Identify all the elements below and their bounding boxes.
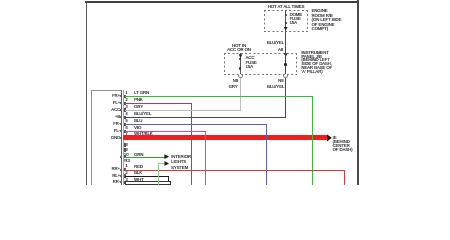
R4 pin 2 contact tick [124, 174, 126, 177]
wire BLK row R4-2 [125, 176, 170, 177]
arrow to interior lights system 1 [164, 154, 169, 159]
pin number 5 connector R3 [125, 119, 127, 123]
R4 pin 3 contact tick [124, 181, 126, 184]
label GRY [218, 85, 238, 89]
connector N8 semicircle [283, 75, 289, 78]
wire VIO vertical drop [205, 131, 206, 185]
wire VIO row 6 [125, 131, 207, 132]
label BLU/YEL [254, 85, 284, 89]
page border left [86, 1, 87, 185]
pin 1 contact tick [124, 95, 126, 98]
pin 2 edge mark [120, 102, 122, 104]
pin 3 edge mark [120, 109, 122, 111]
pin 10 edge mark [120, 156, 122, 158]
wire BLU vertical drop [266, 124, 267, 185]
connector face line [122, 90, 125, 186]
wire RED vertical drop [344, 170, 345, 185]
wire label VIO [134, 126, 141, 130]
component: radio box (partial, cropped at bottom) [91, 90, 92, 186]
connector N9 semicircle [238, 75, 244, 78]
arrow into J/B at A8 [284, 53, 288, 56]
radio pin function label RL+ [100, 174, 120, 178]
pin number 8 connector R3 [125, 143, 127, 147]
pin number 6 connector R3 [125, 126, 127, 130]
radio pin function label RR- [100, 180, 120, 184]
wire LT GRN vertical drop [312, 96, 313, 185]
wire WHT row R4-3 [125, 181, 171, 184]
wire label WHT [134, 178, 144, 182]
radio pin function label +B [100, 115, 120, 119]
wire label GRY [134, 105, 143, 109]
pin number 2 connector R4 [125, 171, 127, 175]
wire label BLU/YEL [134, 112, 151, 116]
label ENGINE ROOM R/B location [312, 9, 342, 31]
pin number 1 connector R3 [125, 91, 127, 95]
pin 5 edge mark [120, 123, 122, 125]
pin N8 label [263, 79, 283, 83]
pin 6 contact tick [124, 130, 126, 133]
R4 pin 3 edge mark [120, 181, 122, 183]
arrow into J/B for ACC feed [239, 54, 243, 57]
wire BLU/YEL from dome fuse down to I/P J/B [285, 32, 286, 53]
pin 9 contact tick [124, 148, 126, 151]
wire BLU/YEL vertical from J/B to radio row4 [285, 78, 286, 119]
arrow to interior lights system 2 [164, 161, 169, 166]
wire GRN branch from below [158, 163, 159, 185]
R4 pin 1 edge mark [120, 169, 122, 171]
fuse dome bottom dot [285, 22, 287, 24]
page border top [85, 1, 358, 3]
R4 pin 1 contact tick [124, 168, 126, 171]
wire label PNK [134, 98, 143, 102]
arrow out of dome fuse box [284, 27, 288, 30]
radio pin function label FR+ [100, 94, 120, 98]
label HOT AT ALL TIMES [260, 5, 312, 9]
pin number 1 connector R4 [125, 164, 127, 168]
wire label BLU [134, 119, 142, 123]
R4 pin 2 edge mark [120, 175, 122, 177]
wire RED row R4-1 [125, 170, 346, 171]
pin 1 edge mark [120, 95, 122, 97]
page border right [357, 0, 359, 185]
label ACC FUSE 15A [246, 56, 257, 70]
label DOME FUSE 15A [290, 13, 303, 26]
wire LT GRN row 1 [125, 96, 314, 97]
radio pin function label ACC [100, 108, 120, 112]
pin 8 contact tick [124, 143, 126, 146]
radio pin function label FL- [100, 129, 120, 133]
radio pin function label FR- [100, 122, 120, 126]
fuse DOME 15A leg wire [285, 10, 286, 32]
highlighted GND wire thick red bar [123, 135, 328, 140]
pin number 3 connector R4 [125, 178, 127, 182]
wire PNK row 2 [125, 103, 193, 104]
label INSTRUMENT PANEL J/B location [301, 51, 332, 74]
fuse dome top dot [285, 14, 287, 16]
fuse acc bottom dot [239, 67, 241, 69]
label INTERIOR LIGHTS SYSTEM [171, 154, 191, 171]
radio pin function label FL+ [100, 101, 120, 105]
pin number 7 connector R3 [125, 132, 127, 136]
wire BLU/YEL row 4 [125, 117, 287, 118]
pin N9 label [218, 79, 238, 83]
wire label GRN [134, 153, 143, 157]
pin 4 edge mark [120, 116, 122, 118]
junction block: engine room R/B dashed box [264, 10, 309, 11]
pin 5 contact tick [124, 123, 126, 126]
junction dot inside J/B [284, 63, 287, 66]
pin number 4 connector R3 [125, 112, 127, 116]
fuse ACC 15A leg wire [240, 53, 241, 75]
wire GRN branch spur [158, 163, 164, 164]
pin 4 contact tick [124, 116, 126, 119]
pin 2 contact tick [124, 102, 126, 105]
wire BLU/YEL through J/B [285, 53, 286, 75]
wire BLK vertical drop [168, 176, 169, 185]
pin 6 edge mark [120, 130, 122, 132]
wire label WHT/BLK [134, 132, 153, 136]
wire label LT GRN [134, 91, 149, 95]
wire GRN row 10 [125, 157, 165, 158]
pin number 3 connector R3 [125, 105, 127, 109]
label HOT IN ACC OR ON [224, 44, 254, 53]
label IE ground point [333, 136, 353, 151]
fuse acc top dot [239, 58, 241, 60]
wire GRY vertical from J/B to radio row3 [240, 78, 241, 111]
pin 3 contact tick [124, 108, 126, 111]
pin A8 label [263, 48, 283, 52]
connector R3 designator [124, 159, 129, 163]
pin number 10 connector R3 [124, 153, 129, 157]
radio pin function label GND [100, 136, 120, 140]
pin number 9 connector R3 [125, 148, 127, 152]
pin number 2 connector R3 [125, 98, 127, 102]
wire BLU row 5 [125, 124, 267, 125]
radio pin function label RR+ [100, 167, 120, 171]
arrowhead of highlighted wire [327, 134, 332, 142]
pin 7 edge mark [120, 137, 122, 139]
junction block: instrument panel J/B dashed box [224, 53, 297, 54]
wire GRY row 3 [125, 110, 242, 111]
pin 10 contact tick [124, 155, 126, 158]
wire label RED [134, 165, 143, 169]
wire PNK vertical drop [191, 103, 192, 185]
label BLU/YEL [254, 41, 284, 45]
wire label BLK [134, 171, 142, 175]
